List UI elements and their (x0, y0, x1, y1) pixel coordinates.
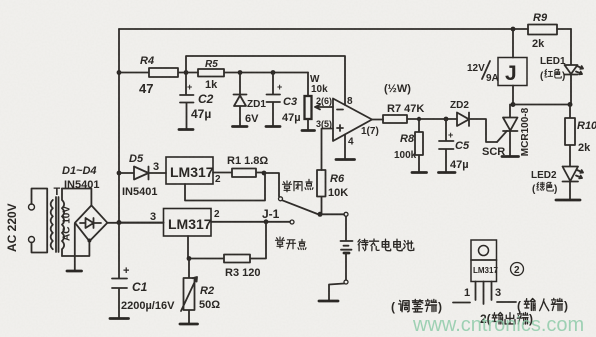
potentiometer W 10k (302, 73, 328, 131)
node adj (187, 256, 192, 261)
wire pin4 ground (336, 135, 355, 160)
relay J coil (467, 27, 527, 107)
wire top rail (119, 28, 528, 30)
node D5 (117, 171, 122, 176)
node R3 tap (264, 219, 269, 224)
regulator LM317 U3 (150, 209, 220, 237)
wire top rail right segment (557, 28, 571, 30)
wire pin3 to R6 (322, 129, 334, 171)
transformer T secondary (62, 189, 73, 257)
capacitor C5 (439, 117, 470, 173)
wire secondary to bridge (62, 189, 91, 257)
resistor R10 2k (565, 105, 596, 167)
zener ZD1 6V (233, 73, 267, 127)
LED2 green (531, 167, 583, 201)
wire LM317 U2 adj feedback (185, 175, 265, 201)
node R4/R5/C2 junction (184, 70, 189, 75)
wiper wire to pin 2 (315, 105, 333, 110)
node R1 output (262, 171, 267, 176)
capacitor C3 (266, 73, 301, 127)
bridge rectifier D1-D4 (62, 165, 107, 271)
AC plug (5, 189, 47, 253)
wire relay bottom rail (513, 104, 570, 106)
LED1 red (540, 29, 583, 105)
resistor R8 100k (394, 117, 427, 173)
zener ZD2 (450, 100, 497, 142)
wire U3 output to NO contact (211, 221, 290, 223)
battery pack (319, 216, 353, 301)
label battery chinese (358, 239, 414, 251)
wire op-amp output (372, 119, 383, 121)
wire op-amp supply rail (186, 56, 345, 105)
label NO chinese (276, 237, 307, 250)
capacitor C1 (110, 223, 175, 319)
wire common to battery terminal (320, 213, 344, 215)
SCR MCR100-8 (482, 105, 531, 159)
node LED1/R10 (568, 102, 573, 107)
transformer core (56, 197, 59, 252)
NO contact circle J-1 (290, 220, 294, 224)
node R4 left (117, 70, 122, 75)
node ZD1 (238, 70, 243, 75)
wire NC contact branch (264, 173, 279, 197)
circled 2 (511, 263, 524, 277)
node C3 (271, 70, 276, 75)
resistor R4 (119, 55, 198, 96)
wire U3 input (119, 222, 164, 224)
label adj terminal (391, 300, 442, 315)
resistor R6 10K (317, 170, 348, 214)
op-amp U1 (316, 96, 379, 148)
node switch common (318, 212, 323, 217)
wire U3 adj (187, 236, 189, 259)
regulator LM317 U2 (166, 157, 221, 185)
label input terminal (517, 299, 568, 314)
resistor R3 120 (189, 222, 266, 279)
diode D5 IN5401 (119, 153, 166, 198)
node C1 (117, 220, 122, 225)
wire left rail (118, 29, 120, 223)
label NC chinese (283, 179, 314, 192)
capacitor C2 (179, 73, 214, 130)
potentiometer R2 50ohm (180, 259, 220, 325)
resistor R9 2k (528, 12, 557, 50)
label output terminal (480, 312, 533, 326)
resistor R5 (198, 59, 308, 91)
transformer T primary (51, 186, 61, 249)
resistor R7 47K (383, 83, 457, 123)
resistor R1 1.8ohm (213, 155, 268, 177)
battery terminal circle top (344, 212, 348, 216)
LM317 package drawing (453, 240, 516, 304)
NC contact circle (279, 197, 283, 201)
switch arm J-1 (282, 200, 317, 214)
wire bridge output (107, 222, 163, 224)
